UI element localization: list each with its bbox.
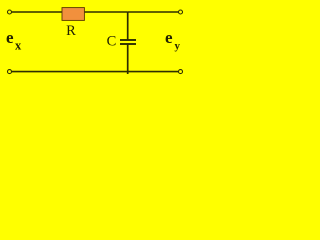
terminal bottom-left xyxy=(8,70,12,74)
wire top-right segment (node A to e_y+) xyxy=(128,11,179,13)
capacitor C bottom plate xyxy=(120,43,136,45)
wire bottom segment (e_x- to e_y-) xyxy=(12,71,179,73)
capacitor C top plate xyxy=(120,39,136,41)
wire top-middle segment (resistor to node A) xyxy=(84,11,128,13)
wire top-left segment (e_x+ to resistor) xyxy=(12,11,63,13)
capacitor C bottom lead wire xyxy=(127,44,129,74)
terminal bottom-right xyxy=(179,70,183,74)
terminal top-right xyxy=(179,10,183,14)
svg-text:C: C xyxy=(107,34,117,50)
capacitor C top lead wire xyxy=(127,12,129,40)
resistor R xyxy=(62,8,84,21)
svg-text:R: R xyxy=(66,23,76,39)
terminal top-left xyxy=(8,10,12,14)
